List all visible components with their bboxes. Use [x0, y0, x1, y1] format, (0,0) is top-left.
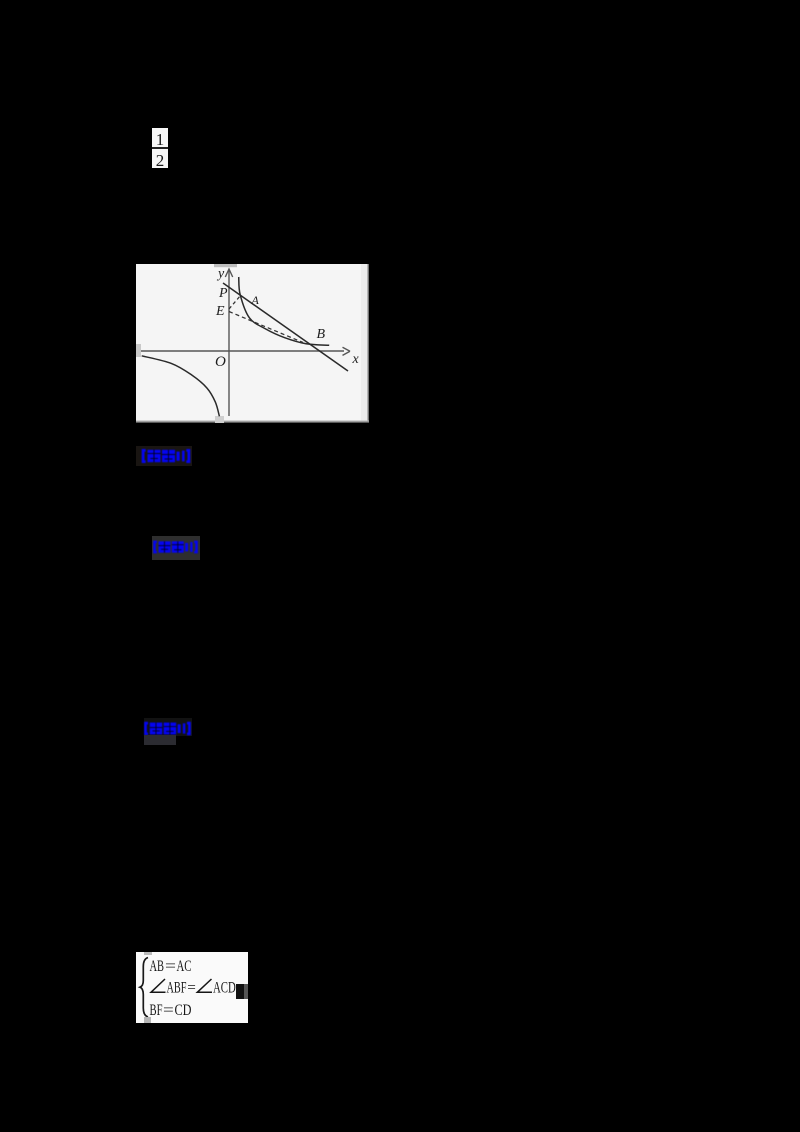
svg-text:ACD: ACD [213, 979, 236, 996]
artifact left patch [136, 344, 141, 357]
blue label 3 [144, 718, 192, 736]
artifact bottom patch [215, 416, 224, 423]
dashed EB [229, 312, 303, 343]
y axis [228, 270, 230, 416]
x axis [141, 350, 344, 352]
svg-text:A: A [251, 293, 260, 307]
blue label 1 [136, 446, 192, 466]
angle symbol 2 [197, 979, 212, 992]
labels [215, 267, 360, 371]
edge shading [361, 264, 367, 423]
hyperbola Q3 branch [142, 356, 220, 417]
comma blob [236, 984, 244, 999]
svg-text:AB: AB [150, 958, 165, 975]
artifact top strip [214, 264, 237, 267]
dashed EA [229, 296, 241, 310]
svg-text:=: = [163, 1002, 174, 1019]
svg-text:y: y [216, 267, 225, 282]
angle symbol 1 [151, 979, 166, 992]
svg-text:BF: BF [150, 1002, 163, 1019]
svg-text:x: x [352, 352, 360, 367]
svg-text:B: B [317, 327, 326, 342]
svg-text:O: O [215, 354, 226, 370]
straight line PB [223, 283, 348, 371]
svg-text:P: P [218, 286, 228, 301]
svg-text:E: E [215, 304, 225, 319]
fraction 1/2 [152, 128, 168, 168]
svg-text:AC: AC [177, 958, 192, 975]
graph image box [136, 264, 369, 423]
hyperbola Q1 branch [239, 277, 330, 345]
svg-text:ABF: ABF [167, 979, 187, 996]
svg-text:=: = [165, 958, 176, 975]
svg-text:CD: CD [175, 1002, 192, 1019]
equation system box [136, 952, 248, 1023]
blue label 2 [152, 536, 200, 560]
left brace [140, 958, 148, 1018]
svg-text:=: = [187, 979, 196, 996]
